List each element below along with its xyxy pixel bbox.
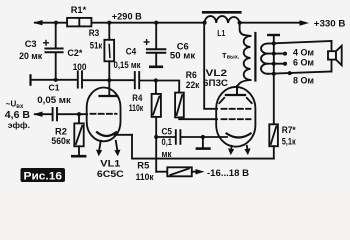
transformer core xyxy=(254,33,256,81)
svg-text:R5: R5 xyxy=(137,161,149,171)
transformer T1 primary winding xyxy=(244,36,251,80)
VL2 control grid (dashed) xyxy=(222,118,251,120)
svg-text:-16...18 В: -16...18 В xyxy=(207,168,249,179)
node J junction C5/ground/VL2-cathode xyxy=(201,135,205,139)
ground (inverted chassis) above secondary xyxy=(268,35,279,44)
svg-text:6С5С: 6С5С xyxy=(97,169,124,179)
inductor L1 coil xyxy=(205,16,240,23)
capacitor C1 xyxy=(53,108,87,120)
wire node H to R6 top xyxy=(156,81,179,93)
node H junction C4/R4/R6 xyxy=(154,78,158,82)
resistor R4 xyxy=(152,81,161,172)
resistor R7 xyxy=(269,124,278,158)
ground chassis bar under R2 xyxy=(72,155,85,158)
svg-text:C4: C4 xyxy=(126,47,137,57)
capacitor C6 electrolytic xyxy=(147,23,165,66)
tap 6 Ohm xyxy=(268,63,286,65)
node input arrow xyxy=(33,112,43,117)
input common terminal bar xyxy=(29,75,31,84)
svg-text:560к: 560к xyxy=(51,136,70,146)
transformer secondary winding xyxy=(261,44,268,74)
node F junction C3/C2/input-terminal xyxy=(54,78,58,82)
svg-text:4 Ом: 4 Ом xyxy=(293,48,314,58)
svg-text:51к: 51к xyxy=(90,40,103,50)
capacitor C4 xyxy=(135,72,156,88)
VL1 heater arrows xyxy=(96,141,121,157)
svg-text:VL1: VL1 xyxy=(100,159,120,169)
node G anode junction VL1 (C2/C4/R3) xyxy=(107,78,111,82)
svg-text:+330 В: +330 В xyxy=(314,19,346,30)
ground chassis bar at node J xyxy=(197,137,210,149)
tube VL2 envelope xyxy=(216,87,255,147)
node I junction C5/R4 xyxy=(154,135,158,139)
inductor L1 core bar xyxy=(203,11,240,14)
node left arrow (to previous stage) xyxy=(33,20,43,25)
svg-text:R4: R4 xyxy=(132,93,143,103)
tap 8 Ohm wire to speaker bottom xyxy=(268,72,332,74)
C6 plus sign xyxy=(144,40,149,45)
node +330V arrow xyxy=(300,20,310,26)
svg-text:мк: мк xyxy=(162,149,172,159)
VL1 grid (dashed) xyxy=(91,113,117,115)
tap 4 Ohm xyxy=(268,53,286,55)
wire secondary top to speaker xyxy=(268,41,332,44)
svg-text:8 Ом: 8 Ом xyxy=(293,76,314,86)
svg-text:эфф.: эфф. xyxy=(8,120,30,130)
label figure badge Ris.16 xyxy=(21,168,66,183)
wire screen grid of VL2 from +290V rail xyxy=(204,23,217,109)
svg-text:0,15 мк: 0,15 мк xyxy=(114,60,141,70)
wire L1 to transformer primary (S-bend) xyxy=(240,23,251,36)
svg-text:R2: R2 xyxy=(55,126,67,136)
svg-text:+290 В: +290 В xyxy=(112,12,142,23)
node C junction C6/rail xyxy=(154,21,158,25)
wire input line to VL1 grid xyxy=(35,113,52,115)
svg-text:L1: L1 xyxy=(217,29,225,38)
wire speaker loop right side xyxy=(331,41,333,72)
node secondary common junction xyxy=(272,41,276,45)
node D junction L1-left/screen-grid xyxy=(203,21,207,25)
svg-text:6 Ом: 6 Ом xyxy=(293,58,314,68)
VL1 anode plate xyxy=(100,80,117,96)
capacitor C5 xyxy=(156,130,227,144)
VL2 beam plates xyxy=(219,98,224,103)
svg-text:VL2: VL2 xyxy=(206,68,228,78)
svg-text:22к: 22к xyxy=(186,80,200,90)
C3 plus sign xyxy=(44,41,49,46)
speaker xyxy=(328,46,342,66)
resistor R3 xyxy=(104,23,114,80)
wire bottom feedback rail xyxy=(132,135,274,159)
resistor R5 xyxy=(156,167,199,176)
svg-text:C5: C5 xyxy=(162,127,173,137)
resistor R1 xyxy=(67,18,91,27)
ground chassis bar under C6 xyxy=(150,66,162,69)
svg-text:50 мк: 50 мк xyxy=(170,51,196,61)
VL2 cathode xyxy=(227,134,251,138)
svg-text:110к: 110к xyxy=(129,103,144,113)
wire anode node to C4 xyxy=(109,79,134,81)
svg-text:100: 100 xyxy=(73,62,87,72)
resistor R2 xyxy=(74,114,83,155)
svg-text:R6: R6 xyxy=(186,70,197,80)
VL2 screen grid (dashed) xyxy=(222,108,251,110)
wire primary bottom to VL2 anode xyxy=(237,80,251,94)
node K junction C1/R2/VL1 grid xyxy=(77,112,81,116)
svg-text:C2*: C2* xyxy=(67,48,83,58)
wire VL1 cathode lead xyxy=(115,134,133,136)
svg-text:R3: R3 xyxy=(89,28,100,38)
capacitor C2 xyxy=(56,71,110,87)
node E junction L1-right/primary xyxy=(238,21,242,25)
svg-text:R1*: R1* xyxy=(71,5,87,15)
svg-text:0,05 мк: 0,05 мк xyxy=(37,95,71,105)
svg-text:0,1: 0,1 xyxy=(162,137,173,147)
svg-text:Рис.16: Рис.16 xyxy=(24,171,63,183)
wire top +290V/+330V rail xyxy=(35,22,205,24)
node bias arrow -16...18V xyxy=(196,169,205,174)
svg-text:R7*: R7* xyxy=(282,125,296,135)
svg-text:C1: C1 xyxy=(49,82,60,92)
svg-text:20 мк: 20 мк xyxy=(19,51,42,61)
wire C3 junction to terminal bar xyxy=(31,79,56,81)
svg-text:C3: C3 xyxy=(25,39,37,49)
wire secondary common lead down to R7 xyxy=(273,44,275,125)
VL2 heater arrows xyxy=(228,146,251,155)
VL2 anode plate xyxy=(226,86,245,95)
tube VL1 envelope xyxy=(87,88,121,142)
resistor R6 xyxy=(175,93,217,120)
VL1 cathode xyxy=(97,132,116,136)
svg-text:5,1к: 5,1к xyxy=(282,136,296,146)
capacitor C3 xyxy=(46,23,63,80)
svg-text:110к: 110к xyxy=(136,172,154,182)
node B junction R3/rail xyxy=(107,21,111,25)
node A junction C3/rail xyxy=(54,21,58,25)
svg-text:6П3С: 6П3С xyxy=(203,78,228,88)
